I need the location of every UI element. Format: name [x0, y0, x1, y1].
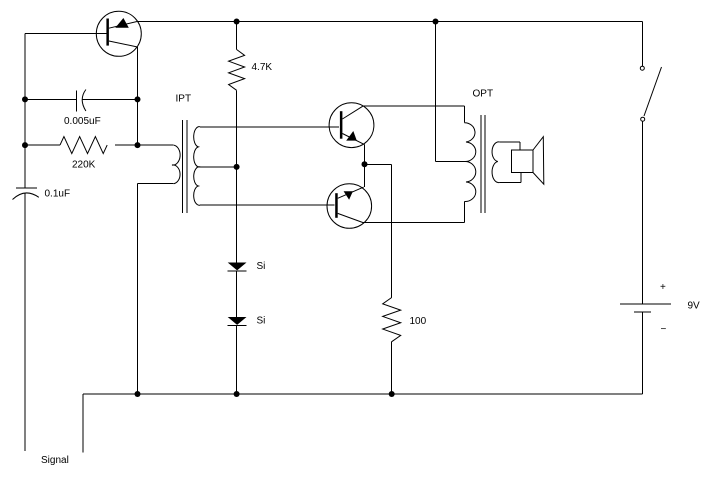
wire signal return drop: [82, 394, 84, 453]
node ground rail / diodes: [234, 391, 240, 397]
capacitor 0.005uF: [25, 90, 138, 128]
svg-text:IPT: IPT: [176, 94, 192, 105]
svg-text:0.1uF: 0.1uF: [45, 189, 71, 200]
wire switch to battery: [642, 121, 644, 304]
wire battery to ground rail: [642, 312, 644, 394]
svg-text:Signal: Signal: [41, 455, 69, 466]
wire between diodes: [236, 271, 238, 317]
transistor Q3 (PNP, lower push-pull): [327, 164, 372, 228]
wire emitter junction to 100 ohm: [365, 164, 392, 297]
wire Q1 collector column: [137, 47, 139, 145]
transistor Q1 (PNP, top-left): [96, 11, 141, 56]
battery 9V: [620, 282, 700, 335]
node ground rail / 100 ohm: [389, 391, 395, 397]
speaker LS1: [511, 137, 544, 185]
svg-text:Si: Si: [257, 261, 266, 272]
wire top rail: [137, 21, 643, 23]
diode D2 Si: [228, 316, 266, 327]
wire Q2 collector to OPT top: [363, 105, 465, 107]
wire IPT primary return to ground rail: [137, 184, 139, 394]
svg-text:+: +: [660, 282, 666, 293]
node collector / 0.005uF: [135, 96, 141, 102]
node collector / 220K / IPT primary: [135, 142, 141, 148]
svg-text:−: −: [661, 324, 667, 335]
wire diode D2 to ground rail: [236, 325, 238, 394]
transformer IPT: [138, 94, 237, 214]
wire Q3 collector to OPT bottom: [363, 222, 464, 224]
svg-text:4.7K: 4.7K: [252, 62, 273, 73]
node emitter junction: [362, 161, 368, 167]
wire ground rail: [83, 393, 643, 395]
svg-text:220K: 220K: [72, 160, 96, 171]
wire Q1 base lead: [25, 33, 106, 35]
wire OPT secondary top to speaker: [499, 142, 520, 150]
svg-text:0.005uF: 0.005uF: [64, 116, 101, 127]
wire left column: [24, 34, 26, 452]
svg-text:9V: 9V: [688, 301, 701, 312]
wire centre tap down to diodes: [236, 167, 238, 263]
transformer OPT: [464, 89, 499, 223]
node top rail / 4.7K: [234, 19, 240, 25]
svg-text:OPT: OPT: [473, 89, 494, 100]
svg-text:Si: Si: [257, 316, 266, 327]
switch S1: [640, 66, 661, 121]
node left / 220K: [22, 142, 28, 148]
node top rail / OPT feed: [433, 19, 439, 25]
node 4.7K / IPT centre tap: [234, 164, 240, 170]
capacitor 0.1uF: [13, 188, 71, 200]
node ground rail / IPT return: [135, 391, 141, 397]
diode D1 Si: [228, 261, 266, 272]
resistor 4.7K: [229, 22, 273, 167]
resistor 100: [383, 298, 427, 395]
node left / 0.005uF: [22, 96, 28, 102]
svg-text:100: 100: [410, 316, 427, 327]
resistor 220K: [25, 137, 138, 171]
transistor Q2 (PNP, upper push-pull): [329, 103, 374, 165]
wire OPT centre tap feed: [436, 22, 467, 162]
wire IPT secondary top to Q2 base: [200, 126, 339, 128]
wire OPT secondary bottom to speaker: [499, 173, 520, 183]
wire IPT secondary bottom to Q3 base: [200, 204, 335, 206]
wire switch feed: [642, 22, 644, 67]
